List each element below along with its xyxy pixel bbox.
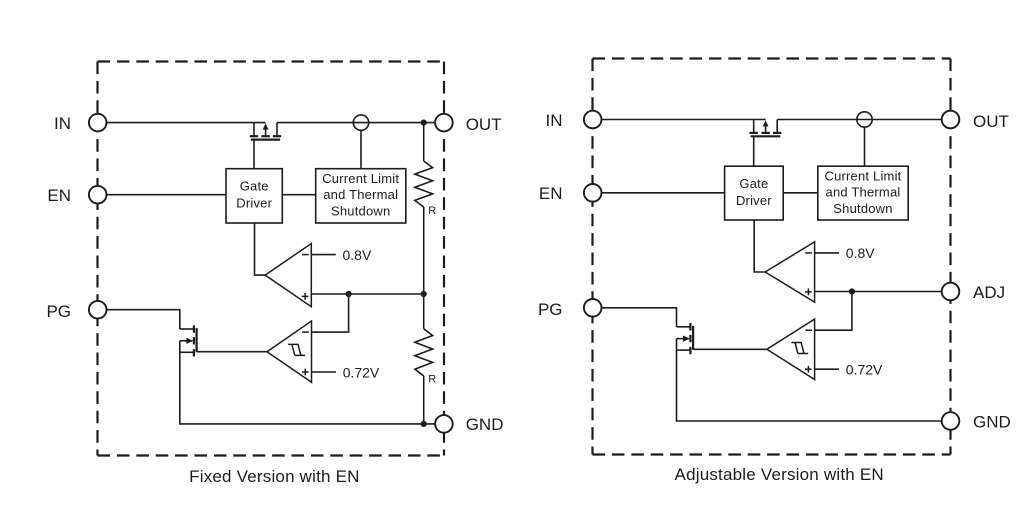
svg-text:R: R <box>428 374 436 386</box>
svg-text:Gate: Gate <box>739 176 768 191</box>
svg-text:EN: EN <box>47 186 71 205</box>
svg-text:0.72V: 0.72V <box>343 364 380 380</box>
current-limit sense tap circle A <box>353 115 368 130</box>
op-amp U3 error amplifierA <box>265 244 311 307</box>
wire error amp output to Gate Driver A <box>255 223 267 275</box>
wire feedback to comparator inverting input B <box>815 292 852 331</box>
IC boundary dashed box (Adjustable Version with EN) <box>593 59 951 455</box>
transistor Q2B (open-drain NMOS) <box>677 323 694 354</box>
wire IN rail to pass FET A <box>106 122 265 124</box>
svg-text:GND: GND <box>973 412 1011 431</box>
pin ENB <box>584 184 602 202</box>
wire feedback node to R2 A <box>423 294 425 329</box>
wire 0.72V reference to comparator non-inverting input A <box>312 371 337 373</box>
wire R1 to feedback node A <box>423 207 425 294</box>
op-amp U3 error amplifierB <box>765 242 814 302</box>
node divider mid junction A <box>421 291 427 297</box>
wire Q2 source to GND rail B <box>677 339 943 421</box>
resistor R2 (lower feedback divider) A <box>415 329 433 376</box>
wire Q1B gate to Gate Driver <box>753 136 755 166</box>
pin GNDA <box>435 415 453 433</box>
svg-text:and Thermal: and Thermal <box>826 185 901 200</box>
svg-text:OUT: OUT <box>973 112 1009 131</box>
current-limit sense tap circle B <box>857 112 872 127</box>
node feedback junction B <box>849 288 855 294</box>
pin ENA <box>89 186 107 204</box>
wire EN to Gate Driver A <box>106 194 226 196</box>
wire tap to Current Limit block B <box>864 127 866 166</box>
svg-text:0.72V: 0.72V <box>846 362 883 378</box>
pin GNDB <box>942 412 960 430</box>
block Gate Driver U1B <box>725 166 784 220</box>
svg-text:OUT: OUT <box>466 115 502 134</box>
svg-text:IN: IN <box>546 111 563 130</box>
pin INB <box>584 111 602 129</box>
op-amp U4 power-good comparatorB <box>767 319 815 379</box>
wire tap to Current Limit block A <box>360 130 362 168</box>
wire PG to Q2 drain A <box>106 310 180 329</box>
svg-text:and Thermal: and Thermal <box>323 187 398 202</box>
wire Q1A gate to Gate Driver <box>253 140 255 169</box>
wire OUT node to R1 A <box>423 123 425 161</box>
pin PGB <box>584 299 602 317</box>
wire PG to Q2 drain B <box>601 308 676 327</box>
svg-text:0.8V: 0.8V <box>846 245 875 261</box>
svg-text:Fixed Version with EN: Fixed Version with EN <box>189 467 360 486</box>
wire Q2 source to GND rail A <box>180 341 436 424</box>
svg-text:PG: PG <box>538 300 563 319</box>
IC boundary dashed box (Fixed Version with EN) <box>98 62 445 456</box>
wire 0.8V reference to error amp inverting input B <box>815 252 840 254</box>
node OUT junction A <box>421 120 427 126</box>
wire Q2B gate to comparator output <box>693 348 767 350</box>
svg-text:Gate: Gate <box>240 179 269 194</box>
wire feedback node from error amp non-inverting input B <box>815 291 942 293</box>
svg-text:0.8V: 0.8V <box>343 247 372 263</box>
svg-text:Shutdown: Shutdown <box>331 203 390 218</box>
wire feedback to comparator inverting input A <box>312 294 349 332</box>
pin OUTB <box>942 111 960 129</box>
svg-text:PG: PG <box>46 302 71 321</box>
transistor Q1A (PMOS pass FET) <box>250 123 281 140</box>
op-amp U4 power-good comparatorA <box>267 321 312 382</box>
pin INA <box>89 114 107 132</box>
resistor R1 (upper feedback divider) A <box>415 161 433 207</box>
wire Q2A gate to comparator output <box>197 351 267 353</box>
svg-text:Driver: Driver <box>736 193 772 208</box>
wire pass FET to OUT A <box>277 122 435 124</box>
wire 0.8V reference to error amp inverting input A <box>311 254 336 256</box>
svg-text:R: R <box>428 205 436 217</box>
block Current Limit and Thermal Shutdown U2B <box>818 166 908 220</box>
wire error amp output to Gate Driver B <box>754 220 766 272</box>
svg-text:Adjustable Version with EN: Adjustable Version with EN <box>675 465 884 484</box>
wire pass FET to OUT B <box>777 119 942 121</box>
transistor Q1B (PMOS pass FET) <box>750 120 782 137</box>
wire 0.72V reference to comparator non-inverting input B <box>815 368 840 370</box>
wire Gate Driver to Current Limit B <box>783 192 818 194</box>
node feedback junction A <box>346 291 352 297</box>
wire R2 to GND rail A <box>423 376 425 424</box>
pin ADJB <box>942 283 960 301</box>
svg-text:Shutdown: Shutdown <box>833 201 892 216</box>
wire Gate Driver to Current Limit A <box>282 194 315 196</box>
svg-text:Current Limit: Current Limit <box>322 171 399 186</box>
svg-text:GND: GND <box>466 415 504 434</box>
svg-text:IN: IN <box>54 114 71 133</box>
wire feedback node from error amp non-inverting input A <box>311 293 423 295</box>
transistor Q2A (open-drain NMOS) <box>180 325 197 356</box>
node GND junction A <box>421 421 427 427</box>
svg-text:EN: EN <box>539 184 563 203</box>
svg-text:Driver: Driver <box>236 195 272 210</box>
svg-text:Current Limit: Current Limit <box>824 168 901 183</box>
pin PGA <box>89 301 107 319</box>
pin OUTA <box>435 114 453 132</box>
block Gate Driver U1A <box>226 169 282 223</box>
block Current Limit and Thermal Shutdown U2A <box>316 169 406 223</box>
svg-text:ADJ: ADJ <box>973 283 1005 302</box>
wire EN to Gate Driver B <box>601 192 724 194</box>
wire IN rail to pass FET B <box>601 119 765 121</box>
